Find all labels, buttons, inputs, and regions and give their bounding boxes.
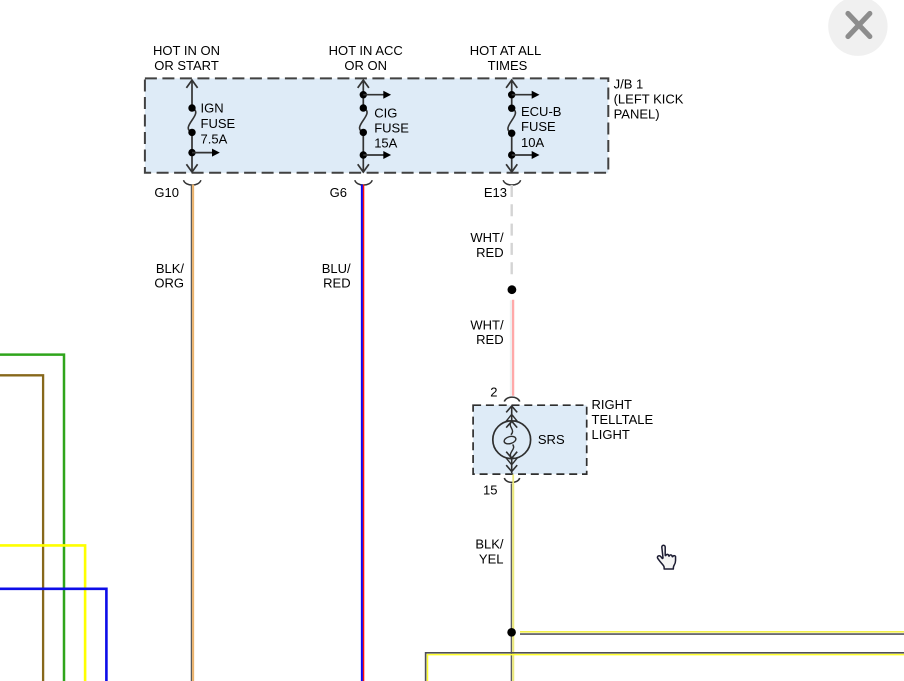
svg-text:15: 15 (483, 482, 497, 497)
pin 2 connector (490, 384, 519, 401)
svg-text:HOT AT ALL: HOT AT ALL (470, 43, 542, 58)
svg-text:10A: 10A (521, 135, 544, 150)
svg-text:RED: RED (323, 276, 350, 291)
wire WHT/RED solid to pin 2 (511, 300, 513, 396)
right telltale light box (473, 405, 587, 474)
label ECU-B FUSE 10A (521, 104, 561, 150)
svg-text:7.5A: 7.5A (201, 132, 228, 147)
label BLU/RED (322, 261, 351, 291)
svg-text:(LEFT KICK: (LEFT KICK (614, 92, 684, 107)
label J/B 1 (LEFT KICK PANEL) (614, 77, 684, 122)
svg-text:FUSE: FUSE (521, 119, 556, 134)
svg-text:PANEL): PANEL) (614, 106, 660, 121)
svg-text:E13: E13 (484, 185, 507, 200)
close button (828, 0, 887, 56)
label HOT IN ON OR START (153, 43, 220, 73)
wire WHT/RED dashed (inside harness) from E13 (511, 185, 513, 278)
junction block J/B 1 box (145, 78, 608, 172)
svg-text:OR ON: OR ON (344, 58, 387, 73)
svg-text:LIGHT: LIGHT (592, 427, 630, 442)
label SRS (538, 432, 565, 447)
connector E13 (484, 180, 521, 200)
svg-text:BLK/: BLK/ (475, 537, 504, 552)
label IGN FUSE 7.5A (201, 101, 236, 147)
svg-text:YEL: YEL (479, 551, 504, 566)
pin 15 connector (483, 478, 520, 497)
label CIG FUSE 15A (374, 105, 409, 150)
svg-text:SRS: SRS (538, 432, 565, 447)
svg-text:RED: RED (476, 245, 503, 260)
node splice (508, 285, 517, 294)
svg-text:FUSE: FUSE (374, 120, 409, 135)
svg-text:WHT/: WHT/ (470, 317, 504, 332)
wire BLK/ORG from G10 (191, 185, 193, 681)
fuse CIG 15A (358, 80, 391, 172)
wire pair BLK/YEL lower-left box outline (426, 653, 904, 681)
label HOT IN ACC OR ON (329, 43, 403, 73)
label HOT AT ALL TIMES (470, 43, 542, 73)
svg-text:FUSE: FUSE (201, 116, 236, 131)
label BLK/ORG (154, 261, 184, 291)
svg-text:ORG: ORG (154, 276, 184, 291)
svg-text:G6: G6 (330, 185, 347, 200)
svg-text:TIMES: TIMES (488, 58, 528, 73)
svg-text:G10: G10 (154, 185, 179, 200)
fuse IGN 7.5A (186, 80, 219, 172)
cursor hand pointer (657, 545, 675, 569)
svg-text:CIG: CIG (374, 105, 397, 120)
svg-text:BLU/: BLU/ (322, 261, 351, 276)
svg-text:15A: 15A (374, 135, 397, 150)
svg-text:TELLTALE: TELLTALE (592, 412, 654, 427)
svg-text:RED: RED (476, 332, 503, 347)
fuse ECU-B 10A (506, 80, 539, 172)
connector G6 (330, 180, 373, 200)
wire BLK/YEL horizontal branch (520, 632, 904, 634)
svg-text:IGN: IGN (201, 101, 224, 116)
wire BLU left (0, 589, 106, 681)
svg-text:J/B 1: J/B 1 (614, 77, 644, 92)
wire BRN left (0, 375, 43, 681)
svg-text:RIGHT: RIGHT (592, 397, 633, 412)
label WHT/RED upper (470, 230, 504, 260)
connector G10 (154, 180, 200, 200)
label WHT/RED lower (470, 317, 504, 347)
svg-text:WHT/: WHT/ (470, 230, 504, 245)
wire BLU/RED from G6 (362, 185, 364, 681)
wire YEL left (0, 545, 85, 681)
label RIGHT TELLTALE LIGHT (592, 397, 654, 442)
svg-text:OR START: OR START (154, 58, 219, 73)
lamp SRS indicator (493, 406, 531, 473)
node splice BLK/YEL (507, 628, 516, 637)
wire BLK/YEL from pin 15 (511, 475, 513, 681)
svg-text:HOT IN ACC: HOT IN ACC (329, 43, 403, 58)
svg-text:ECU-B: ECU-B (521, 104, 561, 119)
wire GRN left (0, 355, 64, 681)
svg-text:2: 2 (490, 384, 497, 399)
label BLK/YEL (475, 537, 504, 567)
svg-text:BLK/: BLK/ (156, 261, 185, 276)
svg-text:HOT IN ON: HOT IN ON (153, 43, 220, 58)
